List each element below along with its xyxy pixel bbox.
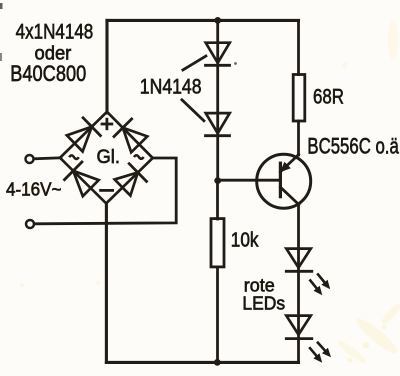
wire top terminal to bridge left vertex [34,158,61,159]
LED2 red [286,316,312,339]
svg-text:10k: 10k [231,229,260,251]
node top-mid junction [214,17,221,24]
label pointer line lower (1N4148 to D2) [182,100,204,121]
terminal circle bottom input [26,220,34,228]
edge specks [234,62,237,65]
resistor 68R [293,75,305,122]
wire collector down to LED1 [297,204,300,362]
svg-text:1N4148: 1N4148 [140,76,202,99]
node bottom junction [214,359,221,366]
diode bridge arm bottom-left [65,162,99,196]
terminal circle top input [26,155,34,163]
svg-text:68R: 68R [313,84,344,108]
tilde AC mark right [134,155,144,159]
wire junction down to 10k [216,181,219,219]
LED1 light arrows [310,273,331,295]
tilde AC mark left [69,155,79,159]
top rail wire [107,19,299,22]
plus sign at bridge + output [102,119,112,129]
label pointer line upper (1N4148 to D1) [183,56,206,70]
svg-text:LEDs: LEDs [242,293,285,313]
wire bottom terminal to right vertex (horizontal + vertical + stub) [35,158,177,224]
bridge rectifier Gl. diamond outline [60,112,153,204]
wire top rail to bridge top [105,20,108,113]
diode bridge arm bottom-right [115,164,147,196]
diode D1 1N4148 [206,43,230,66]
LED1 red [286,249,312,272]
svg-text:Gl.: Gl. [97,147,121,168]
wire bridge minus output down to bottom rail [105,203,108,362]
node base junction [214,177,221,184]
LED2 light arrows [309,342,331,363]
svg-text:B40C800: B40C800 [10,61,86,86]
svg-text:4x1N4148: 4x1N4148 [16,19,94,43]
svg-text:BC556C o.ä: BC556C o.ä [307,133,399,158]
bottom rail wire [106,361,298,364]
diode D2 1N4148 [206,113,230,136]
wire top rail down to 68R [297,20,300,74]
transistor Q1 BC556C [257,154,311,208]
middle branch vertical wire [216,20,219,181]
diode bridge arm top-right [114,119,147,152]
resistor 10k [211,219,224,267]
svg-text:4-16V~: 4-16V~ [6,179,62,200]
wire 10k to bottom rail [216,267,219,363]
minus sign at bridge - output [101,189,113,192]
diode bridge arm top-left [67,118,101,152]
wire base junction to transistor base [218,179,281,182]
wire 68R to emitter [297,121,300,155]
